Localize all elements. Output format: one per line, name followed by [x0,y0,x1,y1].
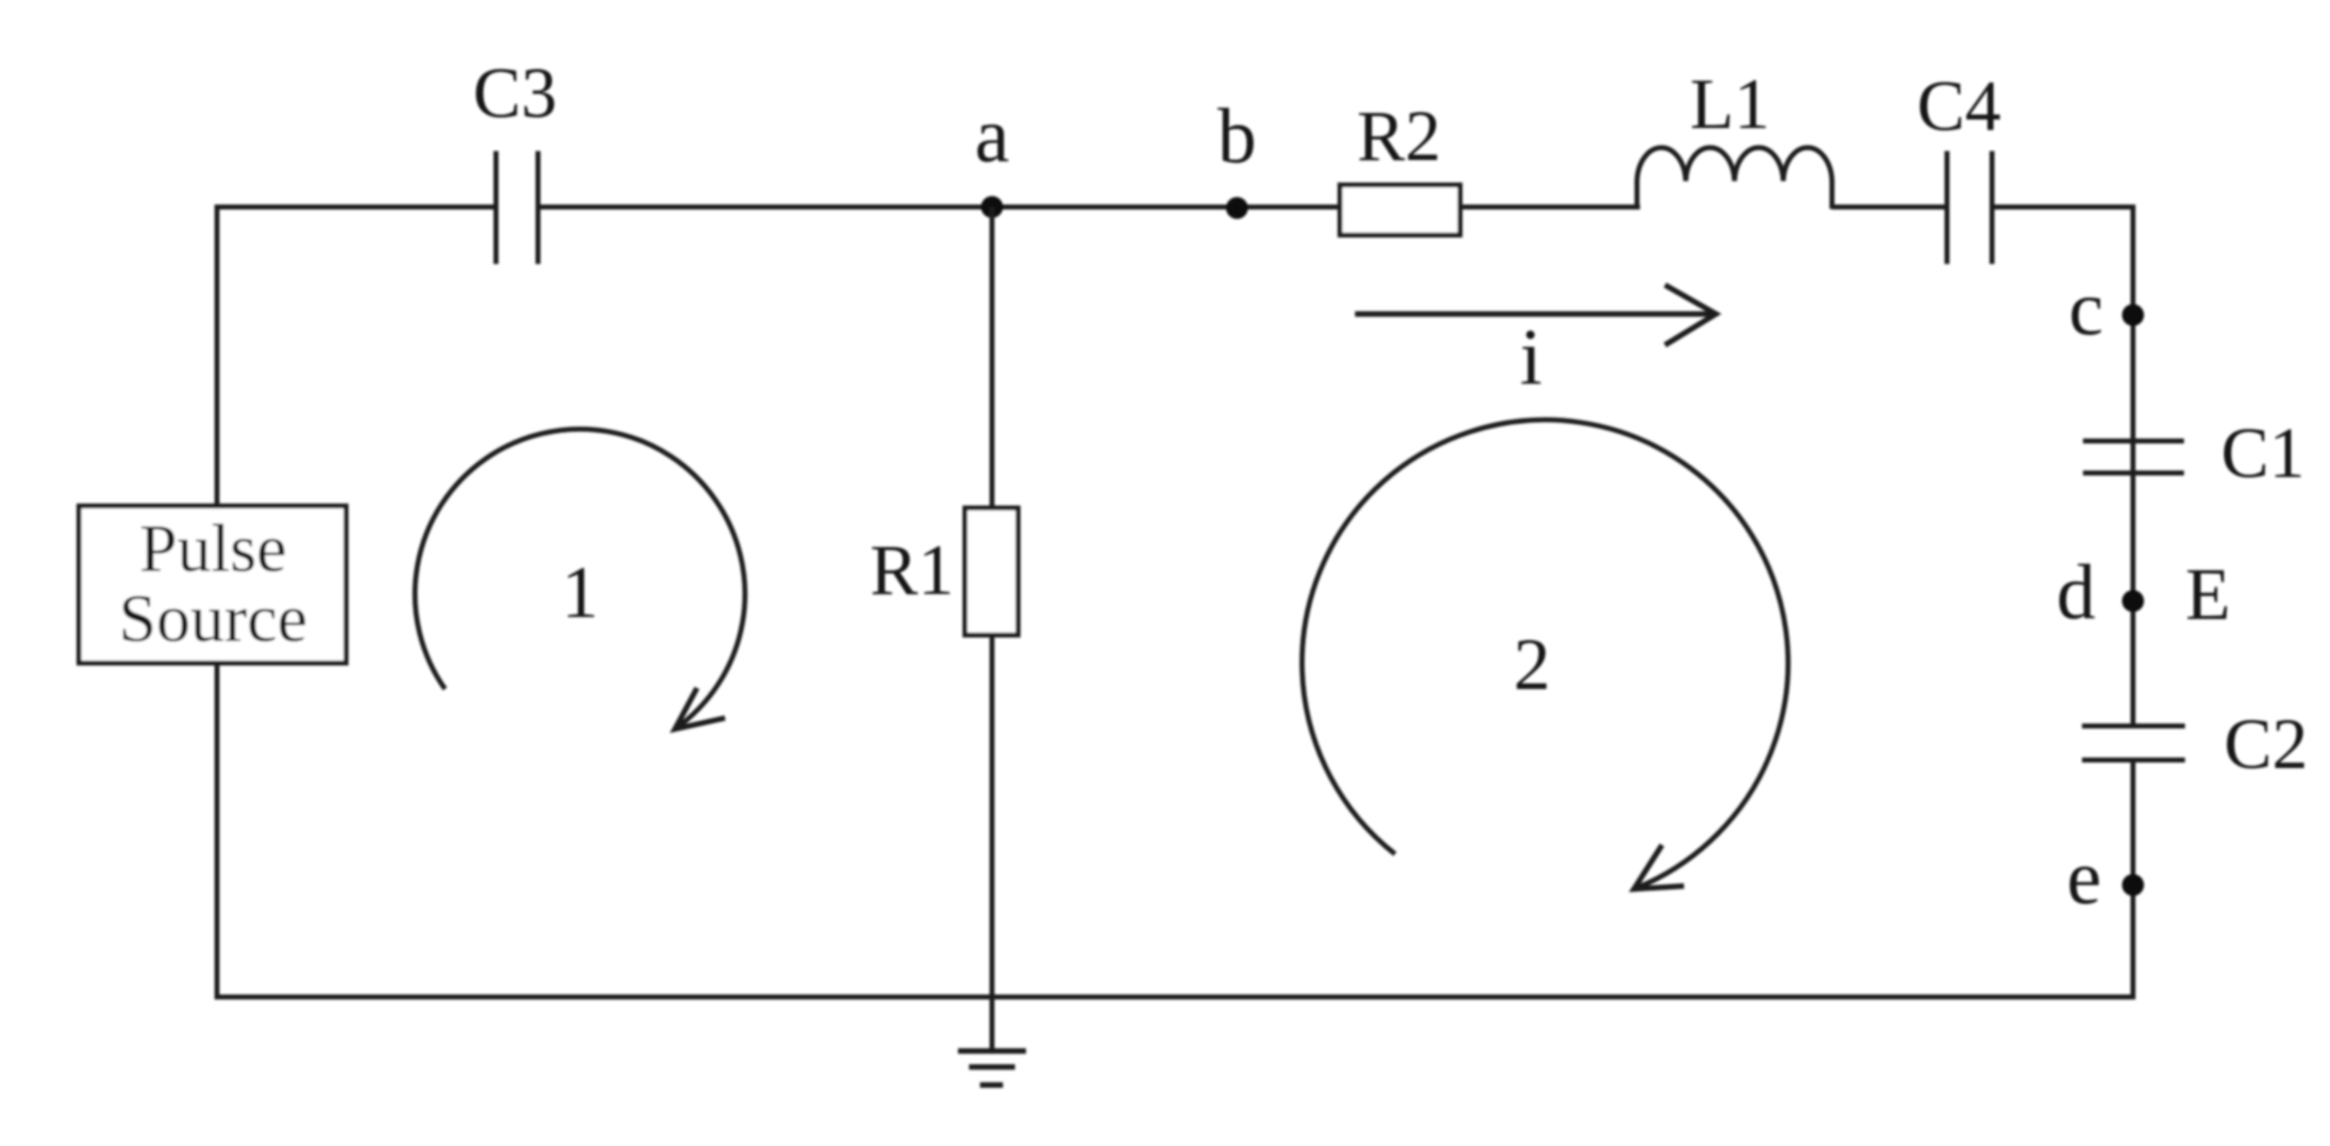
wire C4 to right corner [1992,205,2136,210]
svg-text:L1: L1 [1690,64,1770,144]
wire node a down to R1 [990,207,995,510]
resistor R1 [870,508,1018,635]
capacitor C1 [2083,413,2305,493]
inductor L1 [1637,64,1832,209]
svg-text:i: i [1520,314,1542,402]
svg-text:R2: R2 [1357,96,1441,176]
svg-text:c: c [2069,264,2104,351]
svg-text:C4: C4 [1917,66,2001,146]
svg-text:d: d [2057,548,2096,635]
svg-text:1: 1 [562,552,599,634]
pulse source box U1 [79,506,346,663]
svg-text:C1: C1 [2221,413,2305,493]
wire right vertical upper [2131,205,2136,727]
wire L1 to C4 [1832,205,1947,210]
svg-text:a: a [975,91,1010,178]
wire left vertical upper [215,205,220,509]
svg-text:b: b [1218,92,1257,179]
wire top-left segment [217,205,496,210]
loop 1 arrow [415,429,745,729]
wire C3 to R2 [538,205,1340,210]
svg-text:R1: R1 [870,530,954,610]
resistor R2 [1340,96,1460,235]
ground [958,1051,1026,1085]
svg-text:C3: C3 [473,53,557,133]
svg-text:Source: Source [119,580,308,656]
svg-text:2: 2 [1514,624,1551,706]
wire bottom [215,995,2136,1000]
current arrow i [1355,285,1716,402]
svg-text:E: E [2185,554,2230,636]
svg-text:C2: C2 [2224,704,2308,784]
wire left vertical lower [215,661,220,997]
capacitor C3 [473,53,557,264]
capacitor C4 [1917,66,2001,264]
node d [2057,548,2145,635]
svg-text:e: e [2067,833,2102,920]
node e [2067,833,2144,920]
loop 2 arrow [1302,420,1788,889]
capacitor C2 [2082,704,2308,784]
svg-text:Pulse: Pulse [139,510,286,586]
wire R2 to L1 [1460,205,1640,210]
node a [975,91,1010,218]
node c [2069,264,2144,351]
wire right vertical lower [2131,760,2136,1000]
node b [1218,92,1257,219]
wire R1 down through bottom wire [990,633,995,1051]
